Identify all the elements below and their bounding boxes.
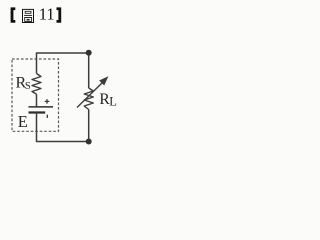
svg-text:S: S [25, 81, 31, 92]
variable-resistor arrow [77, 82, 103, 108]
resistor RS [32, 74, 41, 95]
node top [86, 50, 92, 56]
dashed source box [12, 59, 59, 131]
battery E top plate [29, 106, 54, 108]
wire right branch lower [88, 110, 90, 142]
caption glyph 圖 [23, 9, 34, 22]
wire right branch upper [88, 53, 90, 88]
caption bracket 【 [11, 7, 16, 22]
svg-text:E: E [18, 112, 28, 131]
battery plus sign [45, 99, 50, 104]
wire (RS to battery) [36, 94, 38, 107]
svg-text:L: L [109, 95, 117, 109]
battery minus tick [46, 115, 48, 118]
wire bottom (battery down and across to node) [37, 113, 89, 142]
battery E bottom plate [29, 111, 46, 113]
wire top (source branch up and across to node) [37, 53, 89, 74]
resistor RL [84, 88, 93, 110]
node bottom [86, 139, 92, 145]
svg-text:11: 11 [39, 5, 55, 24]
caption bracket 】 [57, 7, 62, 22]
